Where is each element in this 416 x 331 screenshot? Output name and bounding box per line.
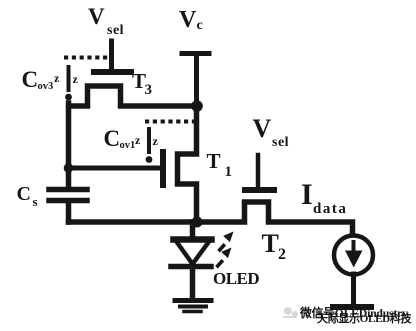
- wire Vsel-right to T2 gate: [256, 155, 261, 187]
- transistor T1 channel: [178, 104, 197, 222]
- transistor T1 gate bar: [160, 152, 166, 185]
- label Cov1: [104, 126, 136, 151]
- svg-text:s: s: [33, 194, 38, 209]
- svg-text:I: I: [301, 178, 313, 211]
- svg-text:V: V: [88, 4, 105, 29]
- wire OLED to ground: [190, 267, 196, 299]
- current source circle: [334, 236, 373, 275]
- label T1: [207, 149, 233, 180]
- svg-text:V: V: [179, 7, 197, 33]
- OLED light arrow 1: [217, 232, 233, 253]
- wire Vsel-left to T3 gate: [109, 41, 114, 69]
- svg-text:2: 2: [278, 246, 286, 263]
- diode OLED cathode bar: [171, 264, 211, 270]
- wire to T1 gate: [69, 166, 161, 171]
- capacitor Cs bottom plate: [49, 198, 87, 204]
- watermark logo: [283, 307, 298, 318]
- svg-text:1: 1: [225, 164, 233, 180]
- wire Cs to bottom rail: [66, 203, 72, 222]
- svg-text:C: C: [17, 183, 31, 205]
- label Idata: [301, 178, 347, 217]
- svg-text:T: T: [262, 229, 279, 258]
- capacitor Cov1 bottom dot: [146, 156, 153, 163]
- svg-text:T: T: [207, 149, 221, 173]
- capacitor Cov1 z marks: [135, 133, 159, 148]
- node Vc junction dot: [191, 100, 203, 112]
- capacitor Cs top plate: [49, 187, 87, 193]
- svg-text:c: c: [197, 18, 203, 33]
- wire left vertical T3 to Cs: [66, 103, 72, 187]
- capacitor Cov1 dashed horizontal: [145, 120, 194, 124]
- wire Vc vertical: [194, 54, 199, 107]
- node OLED junction dot: [192, 217, 203, 228]
- label Vsel (left): [88, 4, 124, 38]
- transistor T3 channel: [69, 86, 197, 106]
- svg-text:OLED: OLED: [213, 269, 259, 288]
- terminal bar Vc: [182, 51, 209, 56]
- transistor T2 gate bar: [245, 187, 274, 193]
- diode OLED triangle: [174, 236, 212, 243]
- label Vsel (right): [253, 114, 290, 150]
- watermark text line 2: [317, 311, 412, 325]
- label T2: [262, 229, 287, 263]
- label Vc: [179, 7, 203, 33]
- svg-text:z: z: [54, 71, 60, 85]
- capacitor Cov3 dashed horizontal: [64, 56, 108, 60]
- ground current source: [333, 304, 371, 310]
- svg-text:sel: sel: [107, 23, 124, 38]
- label OLED: [213, 269, 259, 288]
- label Cov3: [22, 67, 54, 92]
- current source arrow: [345, 240, 363, 268]
- wire bottom rail with T2 channel bump: [69, 202, 353, 234]
- capacitor Cov1 vertical bar: [147, 129, 151, 152]
- svg-text:data: data: [313, 201, 347, 217]
- svg-text:z: z: [73, 72, 79, 86]
- svg-text:ov3: ov3: [38, 81, 54, 92]
- ground OLED: [175, 298, 211, 303]
- wire current source to ground: [351, 274, 356, 305]
- svg-text:C: C: [104, 126, 121, 151]
- label T3: [132, 69, 152, 98]
- transistor T3 gate bar: [94, 69, 131, 75]
- OLED light arrow 2: [215, 248, 231, 269]
- diode OLED anode stub: [190, 222, 196, 238]
- capacitor Cov3 z marks: [54, 71, 79, 86]
- svg-text:3: 3: [145, 82, 153, 98]
- svg-text:V: V: [253, 114, 272, 143]
- watermark text line 1: [299, 306, 408, 320]
- svg-text:C: C: [22, 67, 39, 92]
- svg-text:sel: sel: [272, 135, 289, 150]
- svg-text:z: z: [153, 134, 159, 148]
- svg-text:z: z: [135, 133, 141, 147]
- svg-text:ov1: ov1: [120, 140, 136, 151]
- capacitor Cov3 bottom dot: [65, 94, 72, 101]
- capacitor Cov3 vertical bar: [67, 67, 71, 90]
- label Cs: [17, 183, 38, 209]
- node gate junction dot: [64, 163, 74, 173]
